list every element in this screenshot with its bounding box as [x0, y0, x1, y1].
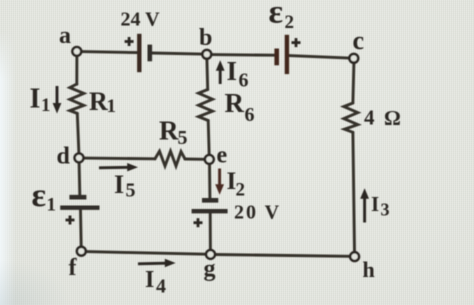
svg-text:1: 1	[41, 95, 51, 116]
current arrow I3	[360, 188, 369, 222]
svg-text:1: 1	[47, 195, 57, 216]
label node c	[353, 26, 365, 55]
battery 20V plates	[192, 200, 228, 211]
svg-text:R: R	[225, 88, 245, 118]
current arrow I1	[53, 86, 62, 114]
wire d to R5	[83, 157, 155, 161]
svg-text:1: 1	[107, 96, 117, 117]
wire 24V battery to b	[152, 53, 203, 54]
svg-text:4: 4	[364, 105, 375, 129]
wire a down to R1	[75, 56, 78, 84]
svg-text:I: I	[114, 170, 124, 199]
current arrow I5	[99, 163, 138, 171]
label node e	[217, 143, 228, 169]
resistor R6	[199, 90, 213, 121]
wire b down to R6	[205, 59, 209, 90]
svg-text:5: 5	[178, 127, 188, 149]
node g	[206, 250, 215, 259]
svg-text:I: I	[30, 84, 41, 115]
label node a	[59, 23, 71, 49]
label I1	[30, 84, 51, 117]
svg-text:R: R	[89, 87, 108, 116]
svg-text:6: 6	[239, 70, 249, 92]
svg-text:I: I	[371, 192, 379, 216]
wire E2 battery to c	[289, 56, 350, 59]
wire g to h	[215, 255, 350, 257]
svg-text:h: h	[363, 257, 375, 282]
svg-text:I: I	[145, 267, 154, 293]
battery 24V plates	[139, 34, 150, 72]
current arrow I4	[138, 259, 176, 267]
label E1	[32, 177, 57, 216]
node e	[205, 155, 214, 164]
wire 20V battery to g	[209, 213, 212, 250]
plus sign 20V	[194, 218, 203, 227]
svg-text:ε: ε	[32, 177, 47, 214]
svg-text:24 V: 24 V	[121, 9, 161, 31]
label I4	[145, 267, 166, 298]
svg-text:g: g	[204, 256, 216, 282]
wire d down to battery E1	[78, 162, 82, 195]
label node f	[69, 255, 78, 281]
label node b	[199, 25, 212, 51]
resistor 4 ohm	[344, 103, 358, 132]
label I5	[114, 170, 136, 202]
svg-text:4: 4	[156, 276, 166, 298]
label R1	[89, 87, 116, 117]
node f	[77, 247, 86, 256]
label 4 ohm	[364, 105, 401, 130]
svg-text:20 V: 20 V	[234, 202, 281, 224]
node b	[202, 50, 211, 59]
current arrow I2	[215, 169, 224, 195]
node h	[350, 252, 359, 261]
svg-text:2: 2	[285, 12, 295, 33]
label node d	[57, 144, 71, 170]
battery E2 plates	[277, 35, 287, 74]
wire a to 24V battery	[81, 52, 137, 53]
svg-text:d: d	[57, 144, 71, 170]
svg-text:2: 2	[236, 180, 246, 201]
plus sign 24V	[125, 37, 134, 46]
svg-text:R: R	[159, 116, 179, 146]
label R5	[159, 116, 188, 150]
svg-text:f: f	[69, 255, 78, 281]
svg-text:I: I	[227, 56, 238, 86]
svg-text:c: c	[353, 26, 365, 55]
wire R1 to d	[77, 113, 79, 153]
label R6	[225, 88, 255, 126]
node a	[72, 47, 81, 56]
current arrow I6	[216, 60, 225, 84]
label 20 V	[234, 202, 281, 224]
svg-text:ε: ε	[269, 0, 284, 31]
plus sign E1	[66, 216, 75, 225]
node c	[349, 54, 358, 63]
svg-text:3: 3	[381, 200, 390, 220]
wire battery E1 to f	[79, 210, 83, 247]
label I6	[227, 56, 249, 92]
wire R5 to e	[185, 158, 205, 161]
label E2	[269, 0, 295, 33]
node d	[75, 154, 84, 163]
svg-text:e: e	[217, 143, 228, 169]
battery E1 plates	[60, 197, 99, 208]
label node h	[363, 257, 375, 282]
wire f to g	[86, 252, 207, 255]
label I2	[227, 168, 246, 201]
svg-text:6: 6	[245, 104, 255, 126]
label 24 V	[121, 9, 161, 31]
wire e down to 20V battery	[208, 164, 211, 198]
svg-text:a: a	[59, 23, 71, 49]
svg-text:Ω: Ω	[384, 106, 401, 130]
wire c down to 4 ohm resistor	[353, 63, 354, 103]
resistor R1	[70, 84, 84, 113]
plus sign E2	[292, 38, 301, 47]
wire R6 to e	[208, 121, 209, 156]
wire b to E2 battery	[211, 53, 275, 57]
svg-text:5: 5	[126, 180, 136, 202]
label node g	[204, 256, 216, 282]
wire 4 ohm resistor to h	[353, 132, 355, 252]
label I3	[371, 192, 390, 220]
svg-text:b: b	[199, 25, 212, 51]
resistor R5	[155, 151, 185, 166]
